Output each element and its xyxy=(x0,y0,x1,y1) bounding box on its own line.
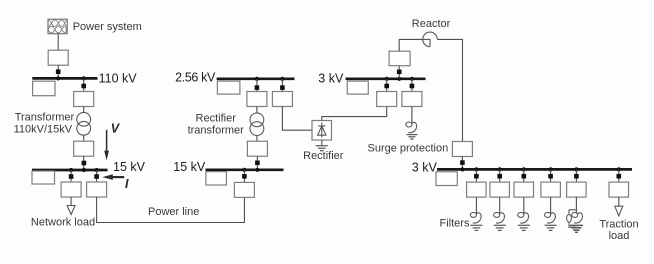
junction dot on 15 kV bus right tap xyxy=(95,168,99,172)
breaker box RB xyxy=(452,142,472,157)
wire transformer to breaker B4 xyxy=(83,135,85,141)
junction dot on 3 kV bus tap 1 xyxy=(385,77,389,81)
filter breaker box F2 xyxy=(490,182,510,197)
junction dot on lower 3 kV bus filter tap 3 xyxy=(522,167,526,171)
svg-text:3 kV: 3 kV xyxy=(412,161,438,175)
svg-text:3 kV: 3 kV xyxy=(318,71,344,85)
wire breaker to filter element 4 xyxy=(550,197,552,214)
wire B3 to transformer xyxy=(83,107,85,113)
breaker box M3 xyxy=(272,92,292,107)
filter breaker box F5 xyxy=(567,182,587,197)
wire 15 kV bus to network-load breaker xyxy=(70,170,72,182)
wire right 15 kV bus to breaker M5 xyxy=(243,170,245,183)
junction square above 110 kV bus xyxy=(56,69,61,74)
breaker box N2 xyxy=(377,92,397,107)
wire source to breaker B1 xyxy=(57,34,59,51)
wire rectifier to ground xyxy=(321,140,323,145)
wire 2.56 kV bus to breaker M2 xyxy=(256,79,258,92)
breaker box B1 xyxy=(48,50,68,65)
feeder box below 110 kV bus left end xyxy=(33,81,55,96)
wire 3 kV bus to breaker N2 xyxy=(386,79,388,92)
wire bus to filter breaker 2 xyxy=(499,169,501,182)
wire B6 to load arrow xyxy=(70,197,72,206)
junction dot on 110 kV bus xyxy=(56,76,60,80)
busbar 110 kV xyxy=(32,77,97,80)
rectifier transformer T2 xyxy=(250,113,264,136)
wire N3 to surge protection xyxy=(411,107,413,124)
junction square above 15 kV bus xyxy=(82,161,87,166)
junction square below bus filter 2 xyxy=(497,174,502,179)
junction square above right 15 kV bus xyxy=(255,161,260,166)
filter curl 4 xyxy=(545,212,556,223)
filter curl 5 xyxy=(572,212,583,223)
junction dot on right 15 kV bus xyxy=(255,168,259,172)
wire 3 kV bus to breaker NB xyxy=(398,66,400,79)
svg-text:15 kV: 15 kV xyxy=(173,160,206,174)
svg-text:Reactor: Reactor xyxy=(412,18,451,30)
junction square above M2 xyxy=(255,85,260,90)
svg-text:Power system: Power system xyxy=(73,21,142,33)
ground filter ground 4 xyxy=(545,225,557,230)
wire RB to lower 3 kV bus xyxy=(461,157,463,170)
power system source symbol xyxy=(45,19,68,34)
feeder box below 2.56 kV bus left end xyxy=(217,81,240,94)
wire 2.56 kV bus to breaker M3 xyxy=(281,79,283,92)
feeder box below lower 3 kV bus left end xyxy=(436,172,457,186)
busbar 2.56 kV xyxy=(217,77,295,80)
wire 110 kV bus to breaker B3 xyxy=(83,78,85,91)
breaker box N3 xyxy=(402,92,422,107)
ground filter ground 2 xyxy=(494,225,506,230)
junction square below bus filter 4 xyxy=(548,174,553,179)
arrow I (current measurement) xyxy=(102,174,124,180)
busbar 15 kV left xyxy=(32,169,108,172)
junction dot on right 15 kV bus left tap xyxy=(242,168,246,172)
junction square below NB xyxy=(397,70,402,75)
junction dot on lower 3 kV bus filter tap 4 xyxy=(549,167,553,171)
feeder box below 15 kV bus left end xyxy=(32,171,55,184)
wire breaker to filter element 3 xyxy=(523,197,525,214)
filter breaker box F3 xyxy=(514,182,534,197)
svg-text:110 kV: 110 kV xyxy=(99,72,138,86)
junction dot on lower 3 kV bus filter tap 1 xyxy=(474,167,478,171)
junction dot on lower 3 kV bus traction tap xyxy=(617,167,621,171)
wire power line xyxy=(97,197,245,223)
junction dot on 15 kV bus centre xyxy=(82,168,86,172)
filter curl 3 xyxy=(518,212,529,223)
wire bus to filter breaker 5 xyxy=(575,169,577,182)
filter breaker box F4 xyxy=(541,182,561,197)
svg-text:transformer: transformer xyxy=(188,124,245,136)
filter curl 1 xyxy=(470,212,481,223)
rectifier U1 xyxy=(312,121,332,141)
svg-text:Surge protection: Surge protection xyxy=(368,143,449,155)
network load breaker box B6 xyxy=(61,182,81,197)
breaker box M4 xyxy=(247,141,267,156)
svg-text:Power line: Power line xyxy=(148,206,199,218)
junction dot on lower 3 kV bus RB tap xyxy=(460,167,464,171)
svg-text:Rectifier: Rectifier xyxy=(196,112,237,124)
junction square below bus filter 5 xyxy=(574,174,579,179)
junction dot on lower 3 kV bus filter tap 5 xyxy=(574,167,578,171)
power line breaker box B7 xyxy=(87,182,107,197)
wire NB up to reactor xyxy=(399,39,423,51)
wire M4 to right 15 kV bus xyxy=(256,156,258,170)
svg-text:I: I xyxy=(125,177,129,191)
breaker box B4 xyxy=(74,141,94,156)
junction square above lower 3 kV bus xyxy=(460,160,465,165)
junction dot on 3 kV bus tap 2 xyxy=(410,77,414,81)
wire 15 kV bus to power-line breaker xyxy=(96,170,98,182)
breaker box M2 xyxy=(247,92,267,107)
svg-text:Rectifier: Rectifier xyxy=(303,150,344,162)
filter curl 2 xyxy=(494,212,505,223)
reactor L1 xyxy=(423,32,438,47)
wire reactor to breaker RB xyxy=(437,39,462,141)
wire 3 kV bus to breaker N3 xyxy=(411,79,413,92)
svg-text:Transformer: Transformer xyxy=(15,111,75,123)
feeder box below right 15 kV bus left end xyxy=(206,172,227,185)
wire M2 to rectifier transformer xyxy=(256,107,258,113)
junction square below bus traction xyxy=(617,174,622,179)
busbar 3 kV upper xyxy=(346,77,426,80)
network load arrow xyxy=(67,206,75,215)
junction dot on 2.56 kV bus right tap xyxy=(280,77,284,81)
wire breaker to filter element 5 xyxy=(575,197,577,214)
junction square below 15 kV bus left xyxy=(69,174,74,179)
ground filter ground 3 xyxy=(518,225,530,230)
transformer T1 110kV/15kV xyxy=(77,112,91,135)
junction dot on lower 3 kV bus filter tap 2 xyxy=(498,167,502,171)
ground filter ground 5 xyxy=(570,225,583,230)
junction square below bus filter 3 xyxy=(522,174,527,179)
filter 5 parallel resistor branch xyxy=(567,210,577,228)
wire traction breaker to load arrow xyxy=(618,197,620,206)
svg-text:Filters: Filters xyxy=(440,218,470,230)
wire breaker to filter element 1 xyxy=(475,197,477,214)
svg-text:15 kV: 15 kV xyxy=(113,160,146,174)
wire bus to traction breaker xyxy=(618,169,620,182)
wire B4 to 15 kV bus xyxy=(83,156,85,170)
reactor breaker box NB xyxy=(389,51,410,65)
wire bus to filter breaker 1 xyxy=(475,169,477,182)
ground surge protection ground xyxy=(406,135,417,139)
junction dot on 3 kV bus reactor tap xyxy=(397,77,401,81)
wire bus to filter breaker 3 xyxy=(523,169,525,182)
svg-text:Network load: Network load xyxy=(31,217,95,229)
junction square below 15 kV bus right xyxy=(94,174,99,179)
junction square below right 15 kV bus xyxy=(242,174,247,179)
feeder box below 3 kV bus left end xyxy=(347,81,368,94)
filter breaker box F1 xyxy=(467,182,487,197)
arrow V (voltage measurement) xyxy=(104,130,109,160)
traction breaker box PT xyxy=(609,182,629,197)
traction load arrow xyxy=(615,206,623,216)
junction square below 110 kV bus xyxy=(81,84,86,89)
wire breaker to filter element 2 xyxy=(499,197,501,214)
surge arrester curl xyxy=(406,122,417,133)
filter 5 ground extra bar xyxy=(575,231,578,233)
busbar 3 kV lower xyxy=(437,168,632,171)
junction square above N3 xyxy=(410,84,415,89)
svg-text:110kV/15kV: 110kV/15kV xyxy=(14,124,73,136)
wire rectifier output to 3 kV bus breaker xyxy=(322,107,387,121)
junction square below bus filter 1 xyxy=(474,174,479,179)
wire bus to filter breaker 4 xyxy=(550,169,552,182)
svg-text:2.56 kV: 2.56 kV xyxy=(175,71,216,85)
wire B1 to 110 kV bus xyxy=(57,65,59,78)
busbar 15 kV right xyxy=(206,168,284,171)
junction dot on 2.56 kV bus left tap xyxy=(255,77,259,81)
breaker box B3 xyxy=(74,92,94,107)
ground rectifier ground xyxy=(316,146,328,151)
power line breaker box M5 xyxy=(234,182,254,197)
ground filter ground 1 xyxy=(470,225,482,230)
junction square above M3 xyxy=(280,85,285,90)
junction square above N2 xyxy=(384,84,389,89)
wire transformer to breaker M4 xyxy=(256,136,258,142)
svg-text:load: load xyxy=(609,230,630,242)
junction dot on 110 kV bus right xyxy=(82,76,86,80)
junction dot on 15 kV bus left tap xyxy=(69,168,73,172)
wire M3 to rectifier input xyxy=(282,107,312,131)
